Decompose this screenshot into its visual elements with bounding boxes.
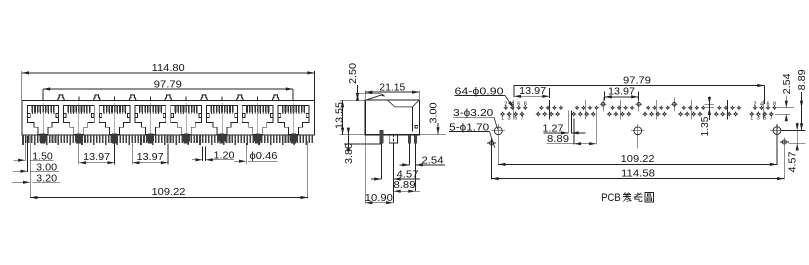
- svg-text:13.97: 13.97: [608, 86, 635, 97]
- svg-text:13.55: 13.55: [334, 102, 345, 129]
- svg-text:4: 4: [760, 101, 763, 107]
- svg-text:1: 1: [750, 116, 753, 122]
- svg-text:3.00: 3.00: [36, 163, 57, 174]
- svg-text:109.22: 109.22: [621, 154, 655, 165]
- svg-text:13.97: 13.97: [137, 152, 164, 163]
- svg-text:3.80: 3.80: [344, 143, 355, 164]
- svg-text:109.22: 109.22: [152, 187, 186, 198]
- svg-text:3: 3: [757, 116, 760, 122]
- svg-text:5: 5: [514, 116, 517, 122]
- svg-text:8: 8: [773, 101, 776, 107]
- svg-text:3.00: 3.00: [429, 102, 440, 123]
- svg-text:2: 2: [753, 101, 756, 107]
- svg-text:1: 1: [501, 116, 504, 122]
- svg-text:PCB: PCB: [601, 192, 621, 204]
- svg-text:97.79: 97.79: [154, 79, 182, 90]
- svg-text:6: 6: [517, 101, 520, 107]
- svg-text:2.54: 2.54: [782, 73, 793, 94]
- svg-text:2: 2: [504, 101, 507, 107]
- svg-text:8.89: 8.89: [547, 134, 569, 145]
- svg-text:1.50: 1.50: [32, 152, 53, 163]
- svg-text:97.79: 97.79: [623, 75, 651, 86]
- svg-text:114.58: 114.58: [621, 168, 655, 179]
- svg-text:1.35: 1.35: [700, 116, 711, 136]
- svg-text:8.89: 8.89: [394, 180, 416, 191]
- svg-text:1.20: 1.20: [214, 150, 235, 161]
- svg-text:3: 3: [508, 116, 511, 122]
- svg-text:ϕ0.46: ϕ0.46: [250, 151, 278, 162]
- svg-text:4.57: 4.57: [788, 151, 799, 172]
- svg-text:10.90: 10.90: [365, 193, 393, 204]
- svg-text:7: 7: [770, 116, 773, 122]
- svg-text:8.89: 8.89: [797, 69, 808, 90]
- svg-text:1.27: 1.27: [543, 123, 564, 134]
- svg-text:2.54: 2.54: [422, 155, 444, 166]
- svg-text:114.80: 114.80: [152, 63, 185, 74]
- svg-text:7: 7: [520, 116, 523, 122]
- svg-text:4.57: 4.57: [397, 170, 419, 181]
- svg-text:6: 6: [766, 101, 769, 107]
- svg-text:8: 8: [524, 101, 527, 107]
- svg-text:2.50: 2.50: [348, 63, 359, 84]
- svg-text:5: 5: [763, 116, 766, 122]
- svg-text:13.97: 13.97: [519, 86, 546, 97]
- svg-text:3.20: 3.20: [36, 174, 57, 185]
- svg-text:13.97: 13.97: [83, 152, 110, 163]
- svg-text:21.15: 21.15: [379, 82, 405, 93]
